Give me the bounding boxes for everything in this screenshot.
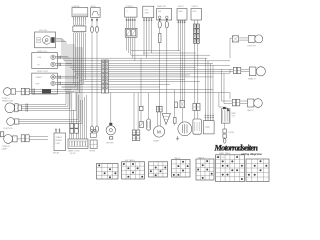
- svg-text:BATT: BATT: [232, 112, 238, 115]
- table 7: [246, 159, 269, 182]
- table 4: [172, 157, 191, 177]
- wire: [96, 33, 98, 126]
- connector block top C: [125, 6, 137, 17]
- wire: [29, 139, 48, 141]
- handlebar switch left: [32, 51, 58, 69]
- wire: [62, 33, 76, 87]
- svg-text:UNIT: UNIT: [145, 13, 150, 15]
- mesh horizontal wires: [131, 50, 180, 52]
- wire: [77, 33, 79, 90]
- wire: [21, 63, 66, 104]
- tail lamp assembly 2: [233, 67, 265, 81]
- wire: [195, 20, 198, 24]
- svg-text:HEADLIGHT: HEADLIGHT: [2, 100, 14, 103]
- spark unit box: [180, 101, 185, 108]
- connector pair right mid: [193, 103, 200, 110]
- svg-text:SWITCH R: SWITCH R: [37, 71, 48, 73]
- hatch ticks: [59, 56, 60, 67]
- wire: [134, 93, 138, 130]
- ignition switch: [35, 30, 56, 48]
- ground symbol: [176, 136, 179, 141]
- wire: [55, 58, 70, 67]
- main connector block bottom: [68, 139, 88, 155]
- wire: [72, 133, 77, 139]
- bullet connector: [96, 27, 99, 33]
- svg-text:IGN SW: IGN SW: [39, 30, 48, 32]
- combination switch unit: [157, 5, 172, 20]
- svg-text:SW B: SW B: [91, 6, 97, 8]
- wire: [55, 64, 72, 70]
- svg-text:DIM: DIM: [38, 57, 42, 59]
- switch unit top B: [91, 6, 101, 18]
- terminal tip: [166, 19, 168, 22]
- bullet connector: [91, 27, 94, 33]
- svg-text:UNIT D: UNIT D: [178, 6, 185, 8]
- tail lamp assembly 3: [232, 99, 262, 112]
- regulator rectifier: [193, 119, 201, 134]
- wire: [219, 93, 225, 129]
- fuse chain under battery: [223, 129, 235, 143]
- wire: [72, 93, 77, 124]
- wire: [127, 37, 135, 61]
- svg-text:LAMP: LAMP: [2, 148, 8, 151]
- svg-text:wiring diagrams: wiring diagrams: [241, 152, 263, 156]
- svg-text:CONN C: CONN C: [126, 6, 134, 8]
- wire: [224, 73, 232, 103]
- svg-text:START: START: [36, 76, 43, 79]
- hatch ticks: [26, 104, 28, 112]
- flasher relay block: [125, 28, 137, 37]
- wire: [62, 33, 74, 85]
- wire: [17, 138, 21, 140]
- wire: [159, 19, 161, 22]
- bullet connector: [96, 126, 99, 132]
- wire: [82, 33, 84, 85]
- wire: [56, 40, 65, 61]
- wire: [21, 73, 76, 110]
- svg-text:M: M: [157, 130, 161, 135]
- wire: [159, 43, 161, 107]
- wire: [229, 69, 231, 73]
- svg-text:REC: REC: [193, 11, 198, 13]
- svg-text:HORN: HORN: [89, 151, 95, 153]
- starter motor connector: [156, 106, 162, 112]
- CDI pins: [205, 114, 214, 121]
- terminal tip: [96, 19, 98, 22]
- pin hatch: [177, 20, 185, 24]
- handlebar switch right: [32, 71, 58, 94]
- wire: [148, 93, 150, 119]
- bullet connector: [165, 22, 168, 29]
- wire: [19, 80, 82, 124]
- indicator clock: [106, 123, 115, 145]
- wire: [19, 77, 80, 122]
- wire: [195, 111, 198, 120]
- diode unit: [139, 106, 143, 127]
- wire: [91, 33, 93, 126]
- position lamp: [3, 118, 19, 130]
- svg-text:UNIT: UNIT: [56, 143, 61, 145]
- condenser: [147, 119, 151, 130]
- wire: [110, 93, 112, 123]
- wire: [166, 19, 168, 22]
- wire bundle risers: [68, 44, 82, 84]
- multi-pin connector ladder: [101, 60, 108, 93]
- svg-text:CDI: CDI: [145, 10, 149, 12]
- battery: [221, 107, 237, 123]
- starter motor: [153, 126, 164, 137]
- small cap: [175, 102, 178, 108]
- wire: [158, 112, 161, 126]
- alternator: [178, 122, 192, 136]
- stacked connector pairs under mesh: [70, 124, 78, 134]
- rectifier unit top: [191, 6, 202, 20]
- wires connector A to control unit: [74, 21, 86, 25]
- svg-text:MAIN SW: MAIN SW: [157, 5, 166, 8]
- wire: [55, 80, 80, 83]
- wire: [55, 57, 68, 66]
- pin comb of connector A: [74, 17, 86, 21]
- hatch: [126, 20, 136, 21]
- wire: [174, 90, 176, 126]
- wire: [206, 58, 214, 113]
- wire: [29, 71, 74, 91]
- wire: [182, 55, 184, 122]
- wire: [84, 33, 86, 80]
- svg-text:FUSE: FUSE: [229, 132, 235, 134]
- wire: [78, 33, 80, 93]
- svg-text:CDI: CDI: [206, 126, 210, 129]
- wire: [19, 75, 78, 120]
- connector pairs mid bottom: [132, 130, 139, 141]
- wire: [29, 69, 72, 89]
- svg-text:CONN A: CONN A: [72, 5, 80, 8]
- regulator unit top: [177, 6, 187, 20]
- wire: [178, 24, 185, 101]
- wire: [229, 93, 231, 99]
- left lamp 1 turn signal: [2, 88, 16, 100]
- fuse mid: [173, 118, 176, 124]
- svg-text:RELAY: RELAY: [53, 152, 60, 155]
- terminal tip: [91, 19, 93, 22]
- wire: [55, 77, 78, 78]
- wire: [55, 65, 74, 71]
- svg-text:REG: REG: [179, 11, 184, 13]
- hatch ticks: [59, 76, 60, 86]
- svg-text:METER: METER: [107, 143, 115, 145]
- CDI unit bottom: [203, 121, 214, 134]
- svg-text:6P 4P: 6P 4P: [70, 153, 76, 155]
- wire: [96, 17, 98, 26]
- edge connector: [0, 132, 3, 137]
- svg-text:UNIT E: UNIT E: [192, 6, 199, 8]
- wire: [29, 136, 48, 138]
- svg-text:HEAD R: HEAD R: [248, 78, 256, 81]
- table 2: [122, 159, 145, 179]
- wire: [55, 75, 76, 76]
- wires under C: [127, 17, 135, 28]
- hatch ticks: [33, 89, 35, 95]
- wire: [29, 93, 70, 95]
- table 5: [196, 156, 214, 180]
- sensor cup component: [89, 129, 97, 152]
- wire: [80, 33, 82, 82]
- pin hatch: [143, 18, 152, 22]
- left lamp 2 turn signal: [2, 135, 18, 151]
- svg-text:SWITCH L: SWITCH L: [37, 51, 48, 53]
- wire: [195, 43, 198, 103]
- svg-text:START: START: [56, 136, 63, 139]
- wire: [140, 58, 142, 122]
- inline connector chain: [194, 24, 200, 43]
- wire: [56, 39, 63, 59]
- ignition control module: [143, 6, 154, 18]
- table 6: [216, 152, 245, 182]
- wire: [222, 69, 233, 101]
- wire: [166, 28, 168, 114]
- svg-text:START: START: [153, 140, 160, 143]
- horn speaker: [162, 114, 170, 125]
- fuse: [158, 34, 161, 43]
- terminal tip: [159, 19, 161, 22]
- bullet connector: [158, 22, 161, 29]
- wire: [55, 81, 82, 84]
- connector block top A: [72, 5, 88, 17]
- table 1: [97, 164, 119, 180]
- wire comb to main connector: [70, 93, 87, 139]
- svg-text:TAIL LP: TAIL LP: [247, 109, 255, 112]
- wire: [16, 91, 22, 93]
- logo signature: [214, 143, 263, 156]
- svg-text:POSITION: POSITION: [3, 128, 13, 130]
- relay bottom left: [53, 128, 66, 154]
- connector pair: [21, 135, 29, 142]
- svg-text:TURN FR: TURN FR: [247, 46, 256, 48]
- wire: [159, 28, 161, 34]
- bullet connector: [91, 126, 94, 132]
- wire: [91, 17, 93, 26]
- headlight: [2, 100, 21, 113]
- wire: [144, 22, 152, 59]
- wire: [56, 42, 67, 64]
- wire: [21, 67, 70, 108]
- connector pair: [21, 88, 29, 95]
- wire: [21, 65, 68, 106]
- table 3: [149, 162, 168, 177]
- svg-text:RELAY: RELAY: [56, 139, 63, 142]
- control unit: [73, 25, 86, 33]
- tail lamp assembly 1: [230, 35, 263, 58]
- svg-text:SW: SW: [158, 11, 161, 13]
